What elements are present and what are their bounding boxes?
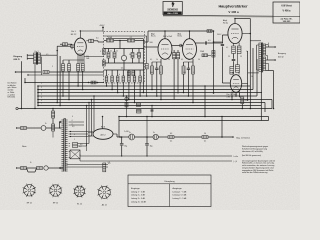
svg-text:0,5: 0,5 — [121, 68, 123, 70]
svg-text:4: 4 — [74, 134, 75, 136]
svg-text:Leitung 1 − 5 dB: Leitung 1 − 5 dB — [131, 190, 146, 193]
svg-text:Geg. 1,8 kΩ kor: Geg. 1,8 kΩ kor — [236, 137, 250, 139]
svg-text:2: 2 — [193, 72, 194, 74]
svg-text:0,1: 0,1 — [96, 38, 99, 40]
svg-text:SIEMENS: SIEMENS — [167, 8, 178, 11]
svg-text:0,1: 0,1 — [208, 40, 211, 42]
svg-text:5: 5 — [41, 97, 42, 99]
svg-text:Eingang: Eingang — [14, 56, 23, 58]
svg-text:600 Ω: 600 Ω — [14, 59, 20, 61]
svg-text:Dämpfung: Dämpfung — [164, 181, 175, 183]
svg-text:6 W Verst: 6 W Verst — [281, 5, 292, 8]
svg-text:Rö2 u Rö3: Rö2 u Rö3 — [163, 36, 172, 38]
svg-text:2: 2 — [160, 72, 161, 74]
svg-text:2: 2 — [41, 87, 42, 89]
svg-text:+300 V: +300 V — [99, 25, 105, 27]
svg-text:25: 25 — [240, 56, 242, 58]
svg-text:5k: 5k — [129, 54, 131, 56]
svg-text:Leitung 3 + 5 dB: Leitung 3 + 5 dB — [131, 197, 146, 200]
svg-text:DIN 1234: DIN 1234 — [8, 97, 16, 99]
svg-text:Rö 3a: Rö 3a — [178, 36, 183, 38]
svg-text:50: 50 — [168, 59, 170, 61]
svg-text:werte bei der Vollaussteuerung: werte bei der Vollaussteuerung. — [242, 171, 268, 174]
svg-text:6,3: 6,3 — [79, 146, 81, 148]
svg-text:1: 1 — [41, 83, 42, 85]
svg-text:V 406 a: V 406 a — [283, 10, 292, 13]
svg-text:Leitung 1 − 5 dB: Leitung 1 − 5 dB — [173, 190, 188, 193]
svg-text:(−) 0: (−) 0 — [234, 161, 238, 163]
svg-text:100 001: 100 001 — [283, 21, 292, 23]
svg-text:2: 2 — [74, 139, 75, 141]
svg-text:4: 4 — [72, 124, 73, 126]
svg-text:Ausgang: Ausgang — [278, 52, 286, 55]
svg-text:7: 7 — [41, 103, 42, 105]
svg-text:0,1: 0,1 — [170, 140, 172, 142]
svg-text:V 406 a: V 406 a — [228, 10, 239, 14]
svg-text:6,3: 6,3 — [72, 126, 74, 128]
svg-text:600 Ω: 600 Ω — [278, 56, 284, 58]
svg-text:50: 50 — [204, 133, 206, 135]
svg-text:2: 2 — [52, 66, 53, 68]
svg-text:0,1: 0,1 — [181, 59, 183, 61]
svg-text:(bei 800 Hz gemessen): (bei 800 Hz gemessen) — [242, 155, 261, 157]
svg-text:4: 4 — [72, 116, 73, 118]
svg-text:6,3: 6,3 — [80, 144, 82, 146]
svg-text:Leitung 2 ± 5 dB: Leitung 2 ± 5 dB — [173, 194, 187, 197]
svg-text:Leitung 2 + 5 dB: Leitung 2 + 5 dB — [131, 194, 146, 197]
svg-text:240: 240 — [183, 72, 186, 74]
svg-text:5k: 5k — [251, 76, 253, 78]
svg-text:6,3: 6,3 — [170, 133, 172, 135]
svg-text:0,1: 0,1 — [150, 59, 152, 61]
svg-text:4: 4 — [41, 94, 42, 96]
svg-text:AZ 12: AZ 12 — [100, 133, 105, 136]
svg-text:2k: 2k — [110, 51, 112, 53]
svg-text:0,1: 0,1 — [204, 140, 206, 142]
svg-text:16µ: 16µ — [124, 145, 127, 147]
svg-text:0,3: 0,3 — [108, 162, 110, 164]
svg-text:470: 470 — [245, 100, 248, 102]
svg-text:EF 12: EF 12 — [71, 34, 77, 36]
svg-text:Rö 2a: Rö 2a — [151, 36, 156, 38]
svg-text:0,5: 0,5 — [46, 54, 48, 56]
svg-text:EF 12: EF 12 — [53, 203, 58, 205]
svg-text:Netz: Netz — [22, 145, 27, 148]
svg-text:1k: 1k — [116, 51, 118, 53]
svg-text:EL 12: EL 12 — [77, 204, 82, 206]
svg-text:übersteuert 0,5 mV/mWq: übersteuert 0,5 mV/mWq — [242, 150, 263, 153]
svg-text:3: 3 — [41, 90, 42, 92]
svg-text:1k: 1k — [156, 59, 158, 61]
svg-text:Eingänge:: Eingänge: — [131, 188, 140, 190]
svg-text:2k: 2k — [136, 54, 138, 56]
svg-text:25: 25 — [228, 56, 230, 58]
svg-text:Hauptverstärker: Hauptverstärker — [218, 4, 248, 8]
svg-text:Ausgänge:: Ausgänge: — [173, 187, 183, 190]
svg-text:Leitung 3 − 5 dB: Leitung 3 − 5 dB — [173, 197, 188, 200]
svg-text:0,1: 0,1 — [226, 47, 228, 49]
svg-text:50: 50 — [198, 59, 200, 61]
svg-text:6: 6 — [41, 100, 42, 102]
svg-text:AZ 12: AZ 12 — [102, 204, 107, 207]
svg-text:Abt v 1959: Abt v 1959 — [167, 12, 178, 15]
svg-text:ab Fabr. Nr.: ab Fabr. Nr. — [281, 18, 293, 20]
svg-text:Lst 4a: Lst 4a — [234, 155, 239, 158]
svg-text:Leitung 4 ± 10 dB: Leitung 4 ± 10 dB — [131, 200, 147, 203]
svg-text:4: 4 — [72, 120, 73, 122]
svg-text:16µ: 16µ — [150, 145, 153, 147]
svg-text:EF 12: EF 12 — [27, 203, 32, 205]
